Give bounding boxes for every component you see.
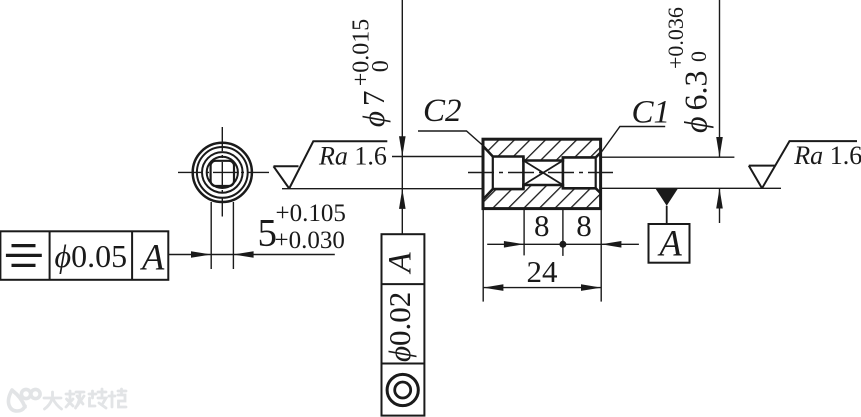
extension line bottom left xyxy=(282,188,483,190)
chamfer C2 depth line xyxy=(492,157,494,190)
dim 24 right arrow xyxy=(581,284,601,291)
watermark logo xyxy=(8,389,40,411)
chamfer C1 depth line xyxy=(595,157,597,188)
section cavity outline xyxy=(483,146,601,200)
dim 8 left extension line xyxy=(523,209,525,255)
dim 5 arrow right xyxy=(233,251,253,258)
dim 5 dimension line xyxy=(168,254,334,256)
section centerline xyxy=(468,172,613,174)
end view bore circle phi7 xyxy=(202,152,243,193)
dim phi6.3 lower segment xyxy=(719,188,721,223)
dim 24 left extension line xyxy=(482,209,484,302)
svg-text:+0.030: +0.030 xyxy=(275,227,345,254)
concentricity symbol inner xyxy=(395,382,411,398)
square hole cross diagonal 2 xyxy=(523,161,563,186)
section outer body with hatching xyxy=(483,139,601,208)
dim 5 arrow left xyxy=(191,251,211,258)
svg-text:8: 8 xyxy=(534,208,550,243)
dim 24 right extension line xyxy=(600,209,602,302)
FCF symmetry frame xyxy=(0,231,168,279)
C1 leader xyxy=(601,127,665,153)
datum A stem xyxy=(666,206,668,224)
end view vertical centerline xyxy=(221,127,223,217)
svg-text:A: A xyxy=(140,237,165,278)
datum A triangle xyxy=(655,188,678,206)
dim phi6.3 dimension line xyxy=(719,0,721,157)
svg-text:Ra 1.6: Ra 1.6 xyxy=(793,141,861,170)
svg-text:24: 24 xyxy=(527,254,559,289)
svg-text:8: 8 xyxy=(576,208,592,243)
dim 24 left arrow xyxy=(483,284,503,291)
end view horizontal centerline xyxy=(178,171,269,173)
dim 8 left arrow xyxy=(504,241,524,248)
extension line bottom right xyxy=(601,187,781,189)
extension line top left xyxy=(392,156,483,158)
svg-text:C2: C2 xyxy=(423,93,462,129)
dim 24 dimension line xyxy=(483,287,601,289)
end view bore circle phi6.3 xyxy=(207,157,238,188)
svg-text:+0.105: +0.105 xyxy=(276,200,346,227)
dim 8 right arrow xyxy=(601,241,621,248)
svg-text:ϕ0.02: ϕ0.02 xyxy=(382,292,417,362)
dim 8-8 dimension line xyxy=(487,243,639,245)
concentricity symbol outer xyxy=(387,374,418,405)
dim phi7 upper arrow xyxy=(399,136,406,156)
end view outer circle xyxy=(193,143,252,202)
dim 8-8 junction dot xyxy=(559,241,566,248)
svg-text:+0.036: +0.036 xyxy=(663,7,688,69)
svg-text:0: 0 xyxy=(368,60,394,72)
square hole cross diagonal 1 xyxy=(523,161,563,186)
watermark text xyxy=(44,389,126,409)
datum A box xyxy=(649,224,690,263)
svg-text:0: 0 xyxy=(686,51,711,62)
dim phi7 lower arrow / FCF leader arrow xyxy=(399,189,406,209)
dim phi6.3 lower arrow xyxy=(716,188,723,208)
dim phi6.3 upper arrow xyxy=(716,137,723,157)
dim 8 middle extension line xyxy=(562,209,564,256)
dim 5 extension line right xyxy=(232,202,234,269)
svg-text:A: A xyxy=(658,223,683,264)
extension line top right xyxy=(601,156,735,158)
svg-text:+0.015: +0.015 xyxy=(349,19,375,87)
svg-text:A: A xyxy=(383,252,419,275)
C2 leader xyxy=(418,131,484,146)
surface finish symbol left xyxy=(274,141,388,188)
dim phi7 dimension line xyxy=(401,0,403,234)
end view square hole xyxy=(211,161,234,186)
svg-text:ϕ0.05: ϕ0.05 xyxy=(55,238,128,274)
svg-text:Ra 1.6: Ra 1.6 xyxy=(318,142,387,171)
end view chamfer circle xyxy=(197,147,248,198)
right bore step line xyxy=(562,157,565,188)
svg-text:C1: C1 xyxy=(632,95,671,131)
section outer rectangle xyxy=(483,139,601,208)
dim 5 extension line left xyxy=(210,202,212,269)
symmetry symbol xyxy=(6,246,42,266)
left bore step line xyxy=(522,157,525,190)
svg-text:ϕ6.3: ϕ6.3 xyxy=(678,70,714,133)
FCF concentricity frame xyxy=(382,234,425,415)
surface finish symbol right xyxy=(749,141,857,188)
